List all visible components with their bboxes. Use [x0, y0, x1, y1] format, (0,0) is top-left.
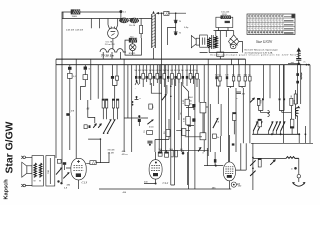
- IF transformer box: [200, 102, 208, 133]
- resistor R25: [84, 125, 91, 129]
- node: [131, 101, 133, 106]
- svg-text:Kapsch: Kapsch: [4, 179, 10, 200]
- capacitor Cx9: [167, 65, 170, 82]
- bus line chassis: [56, 64, 310, 66]
- heater winding: [100, 49, 126, 52]
- diode D2: [270, 159, 276, 165]
- wire: [62, 18, 152, 20]
- transformer T1 secondary: [214, 36, 217, 48]
- resistor R7: [68, 73, 77, 113]
- capacitor C8: [84, 65, 91, 75]
- capacitor C4: [174, 20, 182, 23]
- wire: [103, 39, 120, 60]
- resistor R18: [165, 152, 169, 157]
- wire arrow: [156, 12, 186, 14]
- wire: [62, 12, 120, 19]
- svg-text:C13: C13: [82, 180, 88, 184]
- wire: [160, 130, 209, 150]
- resistor Rx2: [142, 65, 145, 87]
- coil L2: [295, 106, 300, 135]
- resistor Rq3: [112, 99, 114, 119]
- antenna: [297, 47, 302, 58]
- svg-text:70Ω: 70Ω: [48, 170, 50, 174]
- capacitor Cd2: [225, 65, 228, 80]
- wire: [181, 59, 245, 189]
- transformer core: [212, 35, 214, 49]
- diode D4: [93, 123, 97, 128]
- resistor R6: [217, 31, 224, 59]
- trimmer arrow 2: [258, 121, 263, 134]
- svg-text:C12: C12: [163, 181, 169, 185]
- resistor R1: [71, 10, 80, 19]
- resistor R2: [129, 36, 137, 42]
- capacitor C16: [187, 118, 196, 125]
- dial lamp: [129, 44, 136, 55]
- resistor R16: [57, 159, 61, 163]
- svg-text:4/8 co: 4/8 co: [122, 154, 129, 156]
- choke Dr: [213, 134, 235, 146]
- capacitor Cx0: [135, 65, 138, 82]
- resistor R19: [204, 148, 223, 167]
- wire: [171, 59, 208, 189]
- capacitor C11: [66, 111, 75, 151]
- capacitor Cd0: [215, 65, 219, 80]
- resistor Rx4: [149, 65, 152, 85]
- node: [138, 115, 140, 118]
- wire tuning bus: [252, 133, 300, 135]
- svg-text:4mm: 4mm: [149, 127, 154, 129]
- resistor Rx6: [156, 65, 160, 83]
- resistor Rd5: [244, 65, 248, 81]
- node m: [291, 167, 297, 171]
- switch contact S1: [103, 119, 112, 134]
- nodes: [57, 180, 71, 186]
- diode D1: [250, 98, 255, 103]
- switch contact S4: [56, 167, 62, 174]
- wire: [91, 59, 103, 100]
- wire: [200, 31, 238, 53]
- svg-text:0,5μ: 0,5μ: [184, 27, 189, 29]
- node: [161, 12, 163, 14]
- svg-text:700Ω: 700Ω: [72, 16, 78, 18]
- capacitor Cx11: [174, 65, 177, 86]
- node: [305, 133, 307, 135]
- capacitor bank: [159, 148, 185, 157]
- svg-text:2U an 2W: 2U an 2W: [105, 44, 116, 46]
- wire: [125, 38, 141, 55]
- svg-text:m: m: [304, 62, 306, 64]
- output coupling box: [200, 35, 208, 47]
- tube V3: [144, 152, 162, 185]
- switch contact S5: [63, 172, 69, 178]
- svg-text:5 U 7B: 5 U 7B: [106, 41, 113, 43]
- trimmer arrow 1: [253, 121, 258, 134]
- capacitor C15: [186, 104, 196, 110]
- terminal 1: [21, 156, 32, 159]
- svg-text:220V: 220V: [222, 14, 228, 16]
- resistor R24: [182, 129, 186, 136]
- wire: [236, 143, 247, 170]
- resistor R5: [164, 11, 169, 15]
- tube V4: [223, 135, 235, 189]
- resistor Rx17: [195, 65, 198, 87]
- resistor R10: [149, 104, 155, 109]
- wire: [151, 83, 162, 93]
- resistor R17: [158, 152, 162, 156]
- data table: [247, 14, 295, 35]
- wire: [210, 104, 220, 152]
- wire: [124, 59, 148, 152]
- wire: [264, 65, 310, 144]
- resistor Rx10: [170, 65, 174, 85]
- capacitor Cx16: [192, 65, 196, 84]
- capacitor C1: [119, 10, 126, 18]
- resistor R20: [258, 158, 261, 167]
- capacitor C13: [147, 141, 152, 146]
- dropper resistor R4: [152, 11, 155, 59]
- resistor Rd1: [218, 65, 221, 81]
- resistor R8: [81, 75, 88, 100]
- capacitor Cx1: [138, 65, 142, 84]
- coil L1: [268, 110, 270, 116]
- capacitor C10: [237, 92, 246, 100]
- field coil box: [46, 156, 55, 186]
- tube V2: [66, 59, 90, 189]
- wire: [88, 139, 100, 163]
- trimmer arrow 3: [269, 121, 274, 134]
- capacitor Cx3: [145, 65, 148, 82]
- node: [291, 60, 300, 65]
- wire: [88, 100, 95, 123]
- resistor Rx12: [177, 65, 180, 83]
- wire: [221, 81, 250, 162]
- svg-text:m: m: [291, 169, 293, 171]
- switch contact: [162, 85, 167, 100]
- capacitor C7: [68, 65, 72, 74]
- resistor Rx15: [189, 65, 192, 83]
- bus line B+: [56, 58, 246, 60]
- chassis symbol: [135, 80, 139, 85]
- resistor R9: [113, 65, 119, 99]
- capacitor C9: [111, 65, 114, 86]
- switch contact S3: [147, 119, 154, 128]
- resistor R11: [144, 130, 153, 135]
- mains switch: [250, 143, 256, 190]
- svg-text:Gesamtspannungen gegen Chassis: Gesamtspannungen gegen Chassis gemessen …: [210, 54, 296, 57]
- trimmer arrow 6: [281, 121, 286, 134]
- loudspeaker LS2: [22, 162, 32, 177]
- resistor Rx8: [163, 65, 166, 87]
- capacitor C3 electrolytic: [129, 18, 139, 27]
- svg-text:Star G/GW: Star G/GW: [256, 40, 273, 44]
- transformer T1 primary: [208, 38, 211, 48]
- resistor bank 500 left: [257, 98, 270, 112]
- wire: [162, 13, 176, 152]
- wire: [288, 63, 299, 65]
- resistor Rq4: [116, 99, 118, 119]
- jack terminal: [231, 182, 242, 188]
- resistor bank 500 right: [279, 98, 296, 119]
- svg-text:0,05 4/8 0,05 4/8: 0,05 4/8 0,05 4/8: [66, 29, 84, 31]
- node: [180, 112, 191, 127]
- resistor R13: [258, 119, 261, 127]
- capacitor C6: [296, 59, 301, 61]
- wire: [217, 79, 234, 104]
- resistor Rd6: [248, 65, 251, 81]
- trimmer arrow 4: [273, 121, 278, 134]
- trimmer T1: [213, 118, 220, 129]
- wire with coil: [253, 157, 299, 159]
- wire: [91, 19, 99, 29]
- coupling box: [90, 152, 109, 165]
- resistor R15: [291, 90, 297, 119]
- resistor Rd4: [237, 65, 240, 81]
- capacitor C14: [63, 162, 66, 170]
- trimmer arrow 5: [276, 121, 281, 134]
- node: [100, 138, 102, 140]
- switch contact S2: [107, 119, 116, 134]
- wire: [171, 152, 175, 185]
- node: [170, 85, 172, 97]
- capacitor Cx13: [181, 65, 184, 84]
- resistor Rd3: [232, 65, 235, 81]
- motor element X: [229, 31, 243, 53]
- voltage selector: [214, 12, 234, 31]
- capacitor Cx7: [159, 65, 162, 84]
- capacitor C12: [138, 119, 141, 126]
- loudspeaker LS1: [191, 36, 199, 48]
- resistor R14: [290, 119, 294, 134]
- AVC line: [99, 187, 231, 194]
- diode D5: [98, 123, 102, 128]
- resistor R21: [183, 99, 189, 106]
- capacitor Cx5: [152, 65, 155, 86]
- capacitor C5: [174, 32, 182, 35]
- earth symbol: [292, 158, 305, 186]
- terminal 2: [21, 184, 32, 187]
- IF transformer box2: [200, 133, 206, 140]
- svg-text:Dr: Dr: [217, 136, 220, 139]
- wire: [55, 59, 57, 158]
- capacitor C2 electrolytic: [119, 18, 128, 23]
- svg-text:Star G/GW: Star G/GW: [5, 121, 16, 173]
- resistor R12: [233, 113, 236, 135]
- capacitor Cx14: [185, 65, 189, 86]
- node: [175, 12, 177, 14]
- svg-text:70 30 1w: 70 30 1w: [101, 54, 114, 58]
- resistor R23: [164, 130, 170, 137]
- output transformer box: [32, 156, 43, 186]
- rectifier tube V1: [105, 19, 118, 47]
- wire: [175, 13, 177, 35]
- svg-text:1W 4/8: 1W 4/8: [107, 150, 115, 152]
- wire: [61, 19, 63, 183]
- resistor Rq2: [105, 99, 107, 119]
- node: [135, 96, 142, 100]
- diode D3: [198, 147, 204, 155]
- svg-text:38≠4: 38≠4: [188, 96, 194, 99]
- resistor Rq1: [102, 99, 104, 119]
- resistor R3: [140, 19, 143, 39]
- resistor R22: [184, 117, 191, 125]
- svg-text:16+16: 16+16: [129, 25, 136, 27]
- antenna feed wires: [296, 64, 302, 104]
- node: [304, 62, 310, 66]
- svg-text:Bei 110V Netzansch. Spannungen: Bei 110V Netzansch. Spannungen: [245, 49, 279, 52]
- wire: [155, 65, 313, 152]
